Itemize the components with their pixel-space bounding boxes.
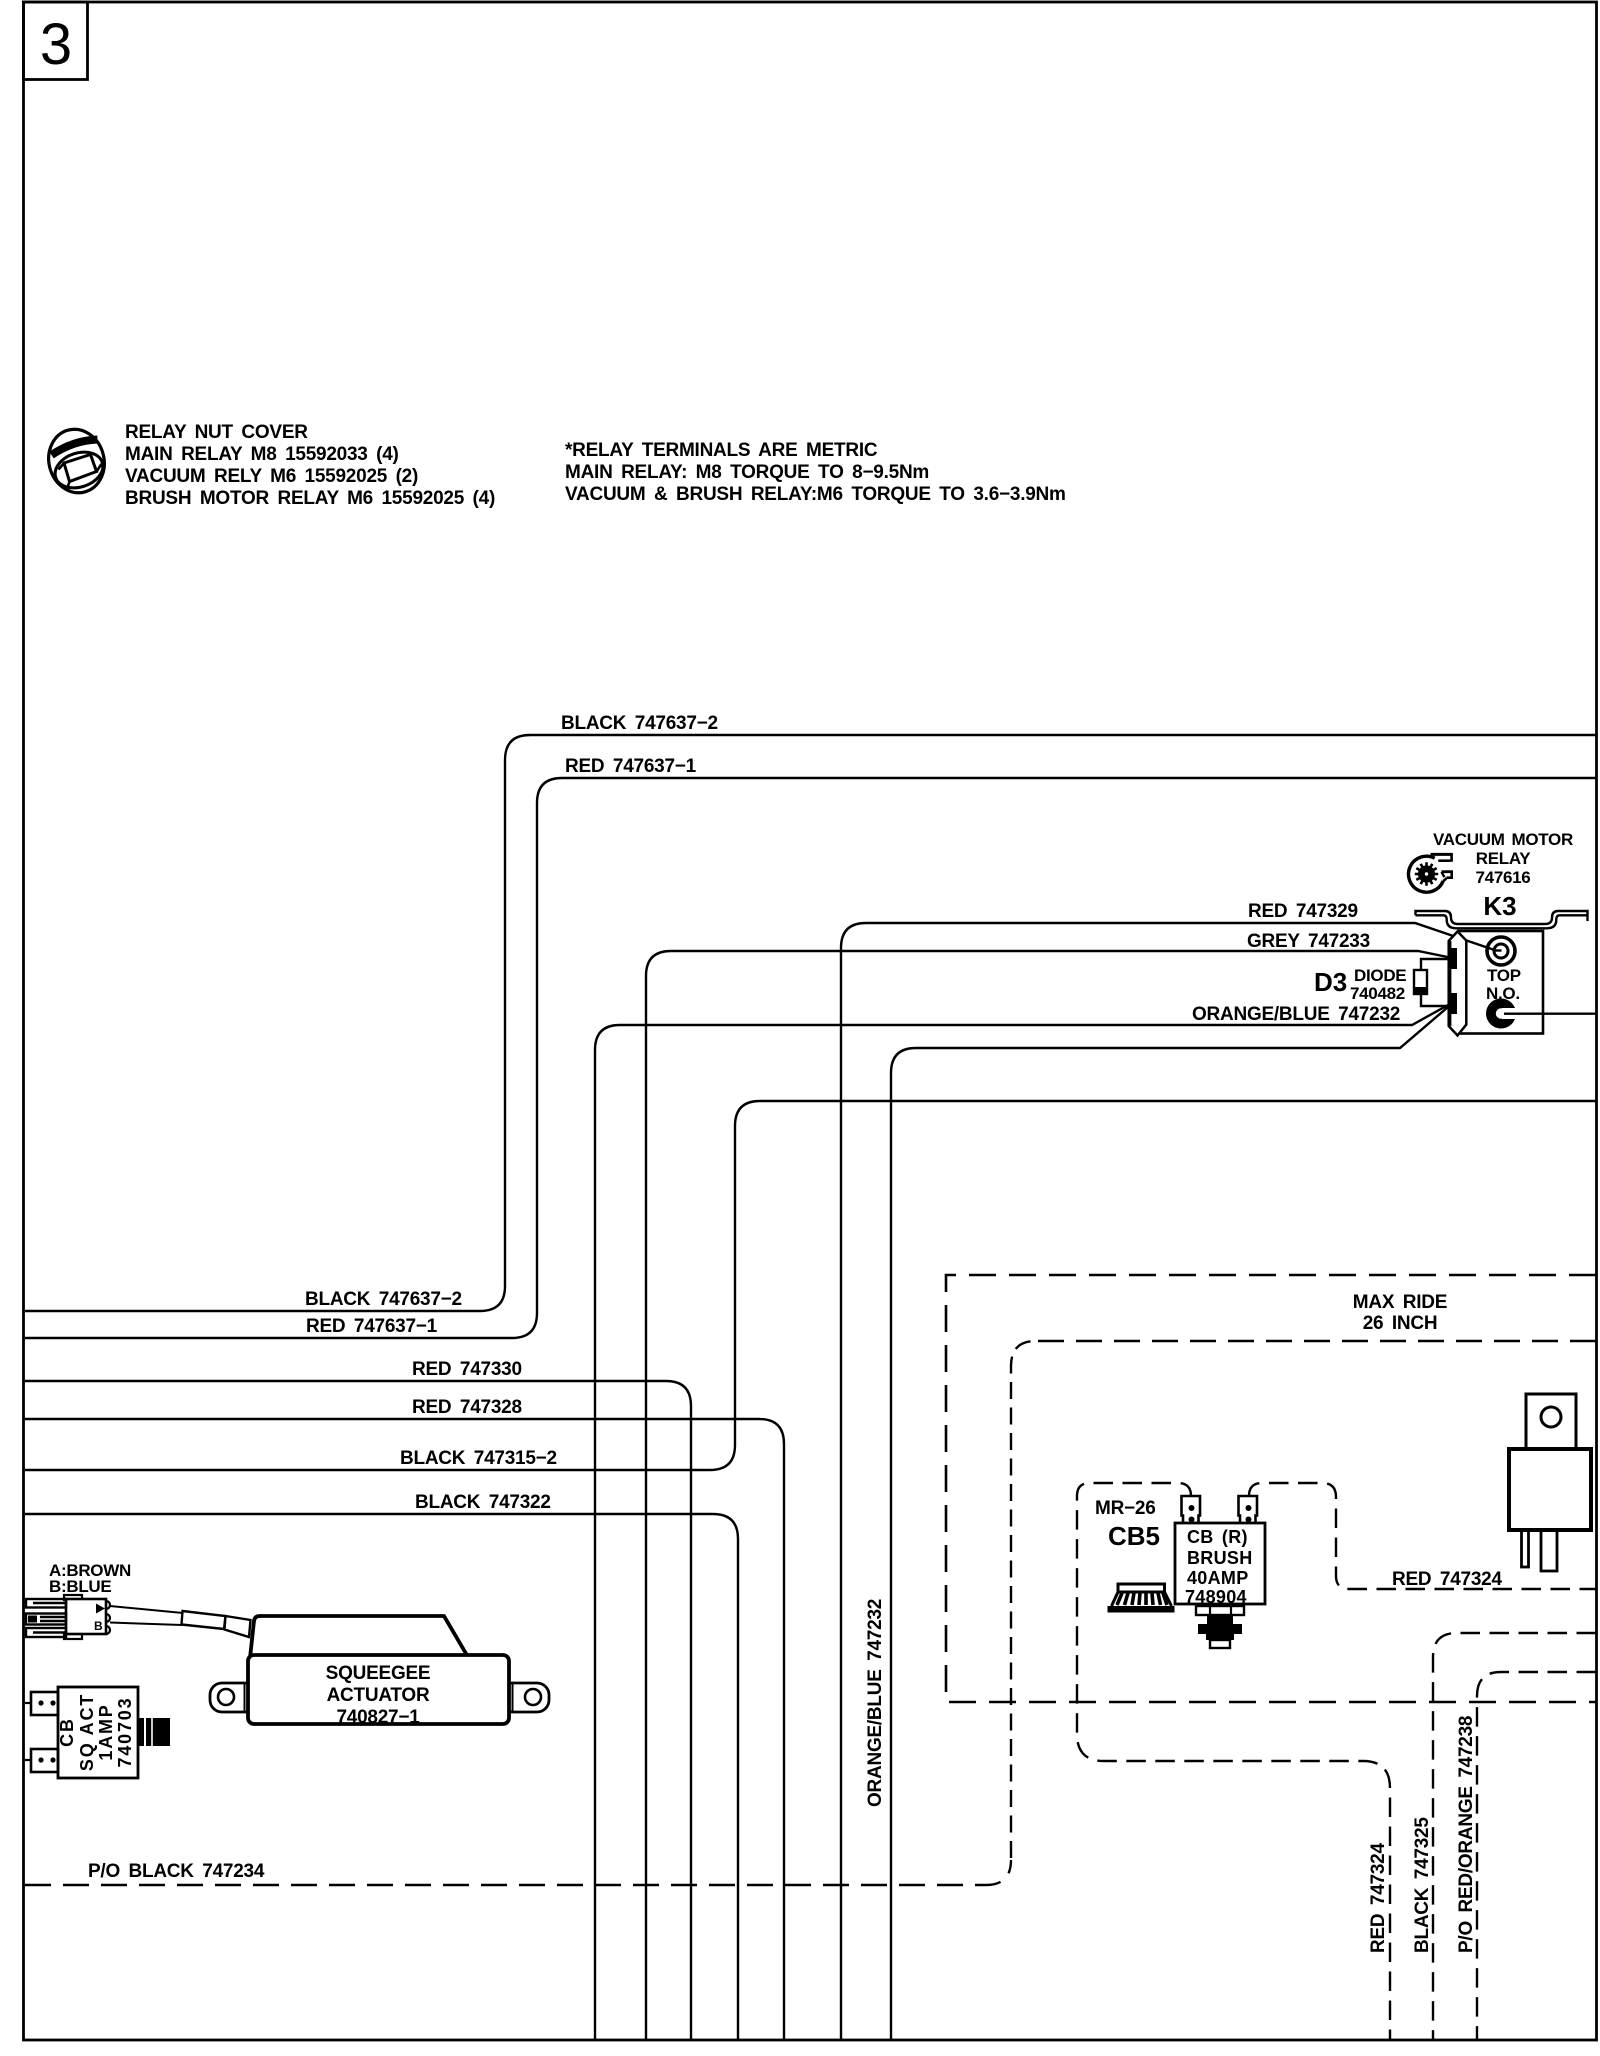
svg-text:VACUUM & BRUSH RELAY:M6 TORQUE: VACUUM & BRUSH RELAY:M6 TORQUE TO 3.6−3.… [565,484,1066,505]
svg-text:747616: 747616 [1476,868,1531,887]
svg-text:*RELAY TERMINALS ARE METRIC: *RELAY TERMINALS ARE METRIC [565,440,878,461]
svg-text:CB5: CB5 [1108,1521,1160,1551]
svg-text:RED 747324: RED 747324 [1392,1569,1502,1590]
svg-text:BLACK 747325: BLACK 747325 [1412,1817,1433,1953]
svg-text:BLACK 747315−2: BLACK 747315−2 [400,1448,557,1469]
svg-text:RED 747328: RED 747328 [412,1397,522,1418]
svg-text:RED 747637−1: RED 747637−1 [306,1316,438,1337]
svg-text:RED 747637−1: RED 747637−1 [565,756,697,777]
svg-text:ORANGE/BLUE 747232: ORANGE/BLUE 747232 [1192,1004,1400,1025]
svg-text:740703: 740703 [115,1697,135,1768]
svg-text:P/O BLACK 747234: P/O BLACK 747234 [88,1861,265,1882]
svg-text:MAIN RELAY M8 15592033 (4): MAIN RELAY M8 15592033 (4) [125,444,399,465]
svg-text:SQUEEGEE: SQUEEGEE [326,1663,431,1684]
svg-text:RED 747329: RED 747329 [1248,901,1358,922]
svg-text:BLACK 747637−2: BLACK 747637−2 [561,713,718,734]
svg-text:VACUUM RELY M6 15592025 (2): VACUUM RELY M6 15592025 (2) [125,466,418,487]
svg-text:TOP: TOP [1487,966,1521,985]
svg-text:CB: CB [57,1717,77,1747]
svg-text:MAIN RELAY: M8 TORQUE TO 8−9.5: MAIN RELAY: M8 TORQUE TO 8−9.5Nm [565,462,929,483]
svg-text:N.O.: N.O. [1486,984,1520,1003]
svg-text:BLACK 747637−2: BLACK 747637−2 [305,1289,462,1310]
svg-text:1AMP: 1AMP [96,1703,116,1760]
svg-text:3: 3 [40,12,72,77]
svg-text:CB (R): CB (R) [1187,1527,1248,1547]
svg-text:VACUUM MOTOR: VACUUM MOTOR [1433,830,1573,849]
svg-text:K3: K3 [1483,891,1516,921]
svg-text:BRUSH MOTOR RELAY M6 15592025: BRUSH MOTOR RELAY M6 15592025 (4) [125,488,495,509]
svg-text:BLACK 747322: BLACK 747322 [415,1492,551,1513]
svg-text:26 INCH: 26 INCH [1363,1313,1438,1334]
svg-text:ORANGE/BLUE 747232: ORANGE/BLUE 747232 [865,1599,886,1807]
svg-text:RELAY NUT COVER: RELAY NUT COVER [125,422,308,443]
svg-text:MR−26: MR−26 [1095,1498,1156,1519]
svg-text:SQ ACT: SQ ACT [77,1693,97,1771]
svg-text:RELAY: RELAY [1476,849,1532,868]
svg-text:GREY 747233: GREY 747233 [1247,931,1370,952]
svg-text:D3: D3 [1314,967,1347,997]
svg-text:RED 747324: RED 747324 [1368,1843,1389,1953]
svg-text:748904: 748904 [1185,1587,1247,1607]
svg-text:B: B [94,1619,103,1633]
svg-text:DIODE: DIODE [1354,966,1406,985]
svg-text:P/O RED/ORANGE 747238: P/O RED/ORANGE 747238 [1456,1716,1477,1953]
svg-text:RED 747330: RED 747330 [412,1359,522,1380]
svg-text:ACTUATOR: ACTUATOR [327,1685,430,1706]
svg-text:B:BLUE: B:BLUE [49,1577,111,1596]
svg-text:740482: 740482 [1350,984,1405,1003]
svg-text:MAX RIDE: MAX RIDE [1353,1292,1447,1313]
svg-text:740827−1: 740827−1 [336,1707,420,1728]
svg-text:40AMP: 40AMP [1187,1568,1249,1588]
svg-text:BRUSH: BRUSH [1187,1548,1253,1568]
